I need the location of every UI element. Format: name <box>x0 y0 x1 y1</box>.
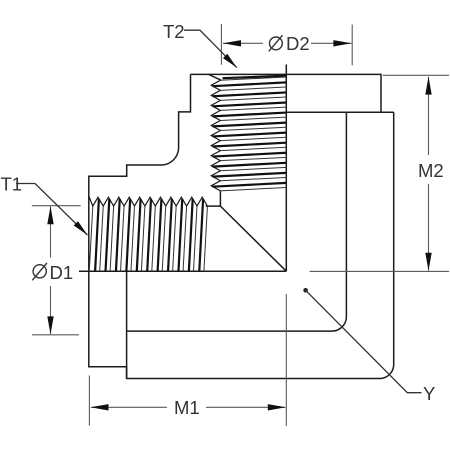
svg-text:D1: D1 <box>50 262 74 283</box>
svg-text:T2: T2 <box>163 21 185 42</box>
svg-text:M2: M2 <box>418 160 444 181</box>
svg-text:M1: M1 <box>174 397 200 418</box>
svg-text:Y: Y <box>423 383 435 404</box>
svg-text:T1: T1 <box>1 174 23 195</box>
svg-text:D2: D2 <box>286 33 310 54</box>
